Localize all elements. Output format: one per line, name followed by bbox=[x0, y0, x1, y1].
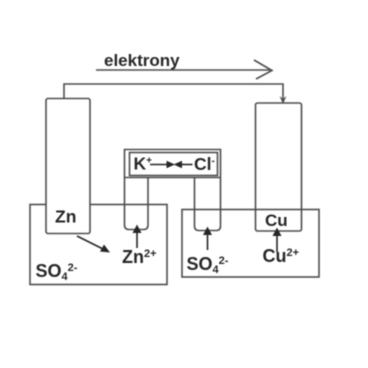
svg-text:Cu: Cu bbox=[265, 211, 288, 230]
svg-text:Zn2+: Zn2+ bbox=[122, 247, 157, 267]
Cl- to K+ arrow (left-pointing) bbox=[181, 164, 193, 166]
svg-text:Cu2+: Cu2+ bbox=[263, 246, 300, 266]
salt bridge outer rect bottom bbox=[125, 177, 221, 179]
wire external circuit bbox=[64, 84, 283, 99]
arrow Zn2+ up into salt bridge left leg bbox=[136, 231, 138, 248]
electrode Zn bbox=[46, 99, 90, 234]
beaker right (CuSO4 solution) bbox=[182, 210, 319, 278]
wire arrowhead into Cu electrode bbox=[280, 96, 287, 104]
svg-text:SO42-: SO42- bbox=[36, 261, 78, 283]
arrow Cu2+ up to Cu electrode bbox=[276, 234, 278, 252]
svg-text:SO42-: SO42- bbox=[187, 254, 229, 276]
K+ to Cl- arrow (right-pointing) bbox=[77, 161, 282, 253]
beaker left (ZnSO4 solution) bbox=[30, 205, 167, 285]
svg-text:Zn: Zn bbox=[55, 207, 76, 227]
salt bridge label box bbox=[130, 153, 218, 176]
arrow Zn dissolving (diagonal) bbox=[77, 236, 103, 249]
electrode Cu bbox=[256, 103, 302, 231]
arrow SO4 2- up into salt bridge right leg bbox=[207, 233, 209, 250]
electron flow arrow bbox=[96, 69, 271, 71]
salt bridge outer tube bbox=[125, 150, 221, 231]
svg-text:elektrony: elektrony bbox=[104, 51, 180, 70]
